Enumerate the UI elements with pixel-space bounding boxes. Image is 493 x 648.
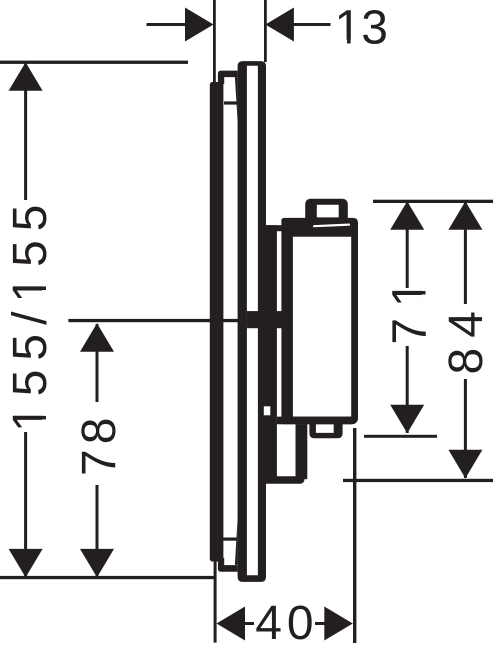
escutcheon inner bottom segment [223, 538, 238, 541]
white notch between box and bracket [264, 406, 271, 415]
wire: left extension line for 40 dimension [214, 561, 217, 643]
arrow down for 155/155 [9, 549, 43, 578]
svg-text:13: 13 [335, 2, 388, 55]
bracket vertical bar [266, 225, 277, 478]
dimension 40 left stub [244, 622, 254, 625]
arrow up for 78 [80, 323, 114, 352]
arrow left for 13 [265, 8, 294, 42]
dimension 155/155 vertical line lower stub [24, 432, 27, 577]
dimension 78 vertical line upper stub [96, 324, 99, 402]
escutcheon plate front bar [210, 82, 224, 562]
arrow down for 71 [390, 405, 424, 434]
arrow up for 71 [390, 201, 424, 230]
escutcheon sleeve top taper wedge [235, 77, 238, 122]
svg-text:71: 71 [384, 270, 437, 345]
wire: top extension line for 155/155 dimension [0, 61, 188, 64]
escutcheon sleeve top band [218, 71, 238, 84]
dimension 71 vertical line lower stub [406, 346, 409, 433]
bracket top flange [266, 225, 286, 231]
concealed box body (with hollow interior) [238, 61, 266, 582]
cartridge bottom nub (hollow) [309, 420, 342, 438]
label 13 [335, 2, 388, 55]
dimension 84 vertical line lower stub [464, 379, 467, 478]
wire: bottom extension line for 84 dimension [343, 479, 493, 482]
cartridge body outline (hollow) [281, 219, 358, 424]
wire: top extension line for 71 and 84 dimensions [373, 200, 493, 203]
arrow right for 40 [324, 607, 353, 641]
arrow left for 40 [217, 607, 246, 641]
label 71 [384, 270, 437, 345]
cartridge collar band [282, 218, 358, 237]
cartridge top cap (hollow) [305, 199, 348, 222]
wire: bottom extension line for 71 dimension [364, 435, 437, 438]
dimension 13 left tail line [147, 23, 187, 26]
dimension 78 vertical line lower stub [96, 485, 99, 577]
escutcheon sleeve bottom band [218, 558, 238, 572]
dimension 13 right tail line [293, 23, 331, 26]
svg-text:84: 84 [440, 301, 493, 374]
arrow down for 84 [448, 450, 482, 479]
escutcheon inner top segment [224, 101, 238, 104]
wire: bottom extension line for 155/155 and 78 dimensions [0, 576, 216, 579]
label 155/155 [4, 195, 57, 432]
dimension 71 vertical line upper stub [406, 202, 409, 288]
arrow up for 84 [448, 201, 482, 230]
crossbar channel between box and cartridge [247, 311, 285, 328]
cartridge body bottom band [277, 417, 358, 425]
dimension 84 vertical line upper stub [464, 202, 467, 304]
step-down housing right wall [296, 424, 308, 479]
dimension 155/155 vertical line upper stub [24, 63, 27, 200]
svg-text:155/155: 155/155 [4, 195, 57, 432]
wire: top extension line for 78 dimension [68, 319, 256, 322]
svg-text:40: 40 [255, 597, 318, 648]
escutcheon sleeve bottom taper wedge [235, 518, 238, 565]
step-down housing bottom band [264, 476, 305, 484]
svg-text:78: 78 [73, 413, 126, 476]
arrow down for 78 [80, 549, 114, 578]
arrow right for 13 [185, 8, 214, 42]
wire: right extension line for 40 dimension [353, 428, 356, 643]
arrow up for 155/155 [9, 62, 43, 90]
wire: right extension line for 13 dimension [264, 0, 267, 62]
wire: left extension line for 13 dimension [213, 0, 216, 82]
cartridge collar top face sliver [314, 225, 349, 227]
dimension 40 right stub [315, 622, 325, 625]
